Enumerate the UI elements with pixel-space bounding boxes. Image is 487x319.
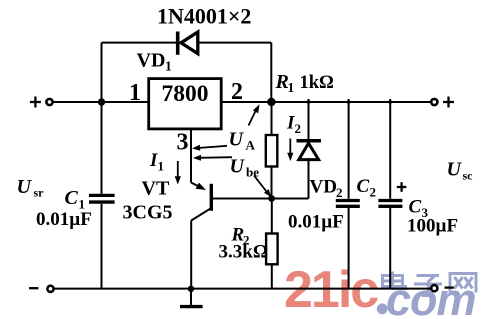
svg-text:U: U	[17, 176, 33, 198]
svg-text:1kΩ: 1kΩ	[300, 73, 334, 93]
svg-text:3: 3	[177, 130, 189, 156]
svg-text:100µF: 100µF	[407, 216, 458, 237]
svg-text:A: A	[246, 138, 256, 153]
svg-text:0.01µF: 0.01µF	[288, 212, 344, 233]
svg-text:C: C	[65, 187, 79, 209]
svg-text:sr: sr	[34, 186, 45, 200]
svg-text:VD: VD	[137, 50, 166, 72]
svg-text:U: U	[229, 129, 245, 151]
svg-text:C: C	[409, 197, 422, 218]
svg-text:0.01µF: 0.01µF	[36, 209, 92, 230]
svg-text:sc: sc	[463, 169, 474, 183]
svg-text:VD: VD	[310, 177, 337, 198]
svg-text:2: 2	[231, 79, 243, 105]
svg-text:7800: 7800	[162, 81, 209, 107]
svg-text:1: 1	[158, 159, 165, 174]
svg-text:1: 1	[288, 80, 295, 95]
svg-text:3.3kΩ: 3.3kΩ	[219, 242, 269, 263]
svg-text:3CG5: 3CG5	[123, 202, 173, 224]
svg-text:VT: VT	[142, 178, 170, 200]
svg-text:1N4001×2: 1N4001×2	[157, 4, 251, 29]
svg-text:2: 2	[370, 185, 377, 200]
svg-text:U: U	[230, 156, 246, 178]
svg-text:U: U	[447, 159, 463, 181]
svg-text:C: C	[357, 176, 370, 197]
svg-text:2: 2	[336, 185, 343, 200]
svg-text:be: be	[246, 165, 259, 180]
svg-text:1: 1	[129, 80, 141, 106]
svg-text:21ic: 21ic	[284, 261, 378, 319]
svg-text:1: 1	[165, 59, 172, 74]
svg-text:2: 2	[295, 121, 302, 136]
